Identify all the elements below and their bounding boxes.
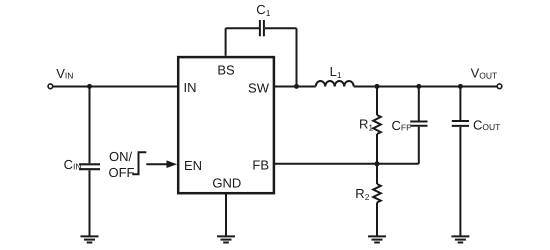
svg-text:EN: EN: [184, 158, 202, 173]
svg-text:OFF: OFF: [109, 165, 135, 180]
svg-text:IN: IN: [184, 80, 197, 95]
svg-text:SW: SW: [248, 81, 270, 96]
svg-text:BS: BS: [217, 62, 235, 77]
svg-text:GND: GND: [212, 175, 241, 190]
svg-text:FB: FB: [252, 158, 269, 173]
svg-text:ON/: ON/: [109, 149, 133, 164]
